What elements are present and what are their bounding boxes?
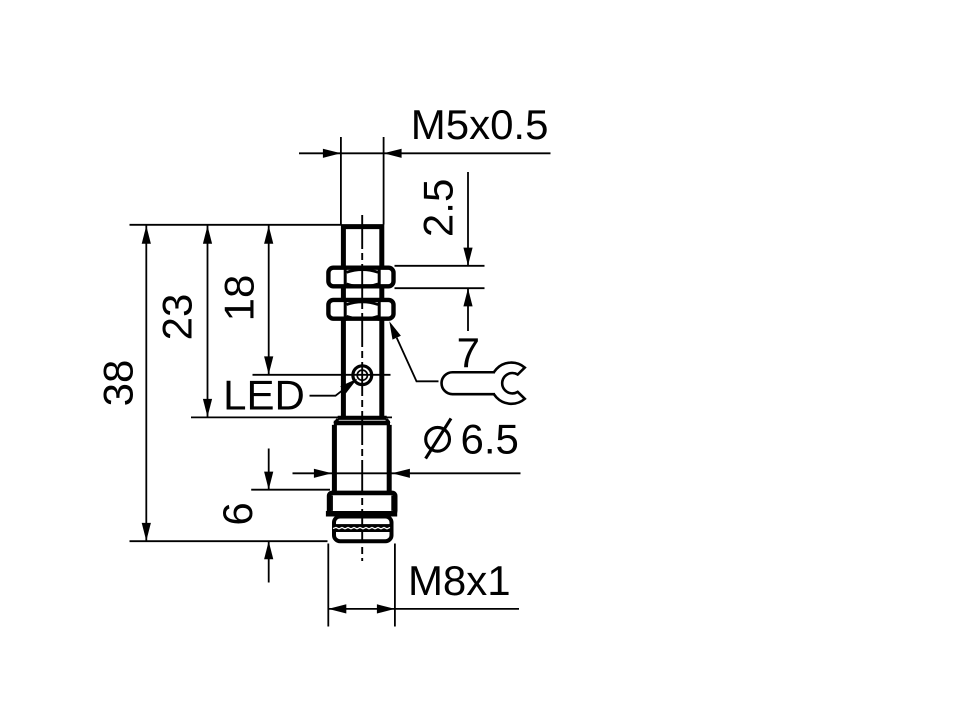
arrowheads: [142, 149, 473, 614]
arrow dia6.5 left (right-pointing): [314, 469, 332, 478]
dim line 2.5 upper: [467, 172, 469, 265]
dim line 6 upper: [268, 449, 270, 490]
dim line 2.5 lower: [467, 289, 469, 331]
arrow 18 top (up): [264, 226, 273, 244]
extension line 18 bottom / LED axis: [253, 374, 391, 376]
connector knurled ring: [332, 524, 391, 532]
wrench handle: [442, 372, 495, 394]
svg-text:6.5: 6.5: [461, 416, 519, 463]
svg-text:M8x1: M8x1: [408, 557, 511, 604]
arrow wrench leader: [389, 321, 401, 339]
svg-text:38: 38: [94, 360, 141, 407]
dim line 38: [145, 225, 147, 541]
LED leader line: [310, 390, 344, 396]
barrel below nuts: [343, 320, 381, 419]
LED indicator outer ring: [353, 366, 372, 385]
arrow M8 right (right-pointing): [377, 604, 395, 613]
LED indicator inner circle: [357, 370, 367, 380]
top extension line (datum at body top): [130, 224, 342, 226]
nut 2 facet arcs: [347, 302, 379, 319]
arrow 38 top (up): [142, 226, 151, 244]
left chamfer: [335, 419, 338, 423]
M8 dimension line: [328, 608, 519, 610]
dim line 18: [268, 225, 270, 374]
dim line 23: [207, 225, 209, 417]
arrow 6 bottom (up): [264, 541, 273, 559]
svg-text:2.5: 2.5: [415, 179, 462, 237]
right chamfer: [387, 419, 390, 423]
svg-text:18: 18: [216, 275, 263, 322]
connector lower body: [334, 517, 392, 542]
svg-text:6: 6: [214, 502, 261, 525]
wrench open-end head: [491, 363, 525, 404]
wrench symbol: [442, 363, 525, 404]
centerline: [361, 215, 363, 561]
knurl zigzag: [333, 527, 390, 528]
arrow 2.5 bottom (up): [463, 288, 472, 306]
dimension thin lines: [130, 137, 551, 627]
extension line 38 bottom: [130, 540, 328, 542]
arrow M5 left (right-pointing): [323, 149, 341, 158]
arrow LED leader: [340, 379, 357, 394]
nut 2: [328, 300, 393, 319]
extension lines 2.5: [395, 266, 485, 288]
nut 1: [328, 268, 393, 287]
svg-text:7: 7: [457, 329, 480, 376]
sensor body M5 thread barrel top section: [343, 227, 381, 269]
arrow M5 right (left-pointing): [384, 149, 402, 158]
arrow 6 top (down): [264, 472, 273, 490]
M5 extension lines: [341, 137, 384, 225]
flange line at barrel bottom: [338, 416, 387, 420]
extension line 23 bottom: [191, 416, 392, 418]
connector inner vertical lines: [332, 496, 392, 511]
dia 6.5 dimension line: [293, 472, 521, 474]
svg-text:23: 23: [154, 294, 201, 341]
svg-text:LED: LED: [223, 372, 305, 419]
svg-text:M5x0.5: M5x0.5: [411, 101, 549, 148]
sensor body lower barrel (dia 6.5): [334, 425, 389, 493]
arrow 23 bottom (down): [203, 399, 212, 417]
nut 1 facet lines: [345, 268, 379, 289]
arrow dia6.5 right (left-pointing): [392, 469, 410, 478]
dim line 6 lower: [268, 541, 270, 582]
lower barrel top edge: [334, 421, 390, 426]
M8 extension lines: [328, 544, 395, 627]
nut 1 facet arcs: [347, 270, 379, 287]
connector mid thick line: [326, 511, 397, 517]
extension line 6 top: [251, 489, 330, 491]
nut 2 facet lines: [345, 300, 379, 321]
diameter symbol for 6.5: [426, 418, 451, 458]
barrel between nuts: [343, 288, 381, 301]
arrow M8 left (left-pointing): [328, 604, 346, 613]
arrow 2.5 top (down): [463, 248, 472, 266]
arrow 18 bottom (down): [264, 356, 273, 374]
arrow 38 bottom (down): [142, 523, 151, 541]
M5 dimension line: [299, 152, 551, 154]
wrench leader line: [397, 338, 439, 382]
M8 connector top band: [329, 493, 395, 514]
arrow 23 top (up): [203, 226, 212, 244]
